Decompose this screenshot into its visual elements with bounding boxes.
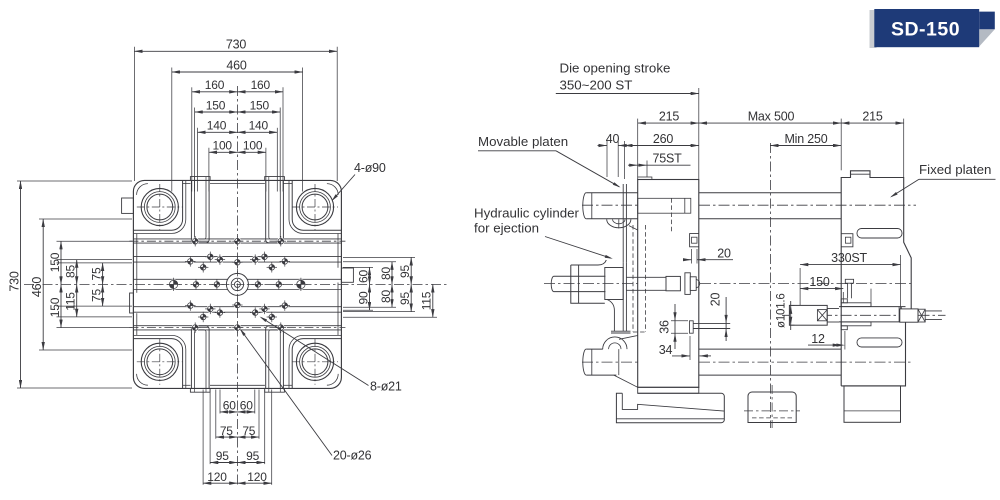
- mounting hole: [267, 262, 277, 272]
- mounting hole: [259, 304, 269, 314]
- tie-bar lobe boundary: [133, 180, 182, 230]
- main lower rod: [839, 306, 906, 308]
- svg-text:75: 75: [242, 424, 255, 438]
- dim 20 rod dia: [725, 297, 727, 341]
- inner edge line bottom: [183, 384, 191, 386]
- dim 20 hook: [691, 249, 693, 264]
- lower assembly at fixed platen: [845, 279, 853, 283]
- movable platen slide shoe: [616, 393, 724, 422]
- svg-text:350~200 ST: 350~200 ST: [560, 78, 633, 93]
- movable platen top step: [638, 177, 652, 180]
- dim 80 lower right: [391, 284, 393, 307]
- rod end bearing square: [918, 309, 925, 322]
- row centerline +150: [129, 240, 345, 242]
- die space center support: [748, 392, 796, 423]
- upper tie bar: [586, 192, 638, 194]
- dim 100/100: [209, 151, 238, 153]
- dim 95/95 bottom: [210, 462, 237, 464]
- svg-text:150: 150: [206, 98, 226, 112]
- hidden ejector bore: [632, 225, 634, 332]
- dim 330ST: [900, 255, 902, 309]
- SD-150 badge: [870, 9, 995, 48]
- svg-text:20-ø26: 20-ø26: [333, 449, 372, 463]
- dim 150 upper left: [60, 241, 62, 284]
- svg-text:100: 100: [243, 139, 263, 153]
- mounting hole: [191, 279, 201, 289]
- center locating hole: [226, 273, 248, 295]
- inner edge line left: [136, 234, 138, 293]
- svg-text:460: 460: [30, 277, 44, 298]
- mounting hole: [274, 279, 284, 289]
- mounting hole: [232, 300, 242, 310]
- dim 36: [671, 320, 688, 322]
- dim 460 top: [172, 71, 303, 73]
- mounting hole: [250, 307, 260, 317]
- svg-text:120: 120: [207, 470, 227, 484]
- dim 460 left: [42, 219, 44, 350]
- dim 60/60 bottom: [220, 411, 237, 413]
- dim 85: [76, 260, 78, 285]
- mounting hole: [232, 322, 242, 332]
- fixed platen T-slot upper: [857, 229, 902, 239]
- mounting hole: [276, 236, 286, 246]
- lower rod: cylinder block: [789, 305, 827, 325]
- svg-text:160: 160: [251, 78, 271, 92]
- mounting hole: [215, 254, 225, 264]
- dim 730 top: [134, 50, 337, 52]
- svg-text:12: 12: [811, 332, 825, 346]
- center crosshair over circle: [221, 283, 253, 285]
- svg-text:40: 40: [606, 132, 620, 146]
- svg-text:150: 150: [809, 275, 830, 289]
- groove band lower mid: [133, 306, 341, 308]
- ejector push rod: [626, 276, 666, 278]
- dim o101.6: [789, 304, 794, 306]
- row centerline -150: [129, 327, 345, 329]
- svg-text:95: 95: [246, 449, 259, 463]
- svg-text:140: 140: [249, 119, 269, 133]
- mounting hole: [259, 252, 269, 262]
- cylinder head block: [605, 268, 623, 300]
- tie bar hole 4-o90: [137, 339, 183, 385]
- centerline horizontal: [24, 283, 447, 285]
- svg-text:75: 75: [220, 424, 233, 438]
- mounting hole: [232, 236, 242, 246]
- dim 215 left: [637, 119, 639, 177]
- hidden tie bar bore line: [671, 198, 673, 232]
- dim Max 500: [840, 119, 842, 171]
- side hole right: [294, 278, 307, 291]
- lower tie bar: [586, 348, 603, 350]
- quick-clamp hook on movable platen face: [690, 234, 699, 247]
- movable platen body: [638, 180, 699, 388]
- svg-text:215: 215: [862, 110, 883, 124]
- svg-text:60: 60: [240, 399, 253, 413]
- mounting hole: [212, 279, 222, 289]
- quick-clamp hook on fixed platen face: [841, 234, 853, 247]
- svg-text:150: 150: [48, 252, 62, 272]
- svg-text:100: 100: [212, 139, 232, 153]
- lower rod segment: [827, 308, 839, 310]
- dim 150/150: [195, 111, 238, 113]
- left edge tab upper: [122, 198, 134, 213]
- svg-text:115: 115: [64, 292, 78, 311]
- svg-text:460: 460: [226, 58, 247, 72]
- groove band +150: [133, 238, 341, 240]
- svg-text:95: 95: [216, 449, 229, 463]
- dim 120/120 bottom: [203, 482, 237, 484]
- svg-text:75: 75: [90, 289, 104, 302]
- svg-text:Max 500: Max 500: [748, 110, 795, 124]
- lower assembly centerline: [782, 314, 946, 316]
- T-slot opening with tab: [265, 177, 285, 181]
- dim 75/75 bottom: [216, 436, 238, 438]
- mounting hole: [205, 252, 215, 262]
- mounting hole: [280, 256, 290, 266]
- mounting hole: [190, 236, 200, 246]
- svg-text:95: 95: [398, 292, 412, 305]
- mounting hole: [232, 257, 242, 267]
- mounting hole: [267, 312, 277, 322]
- platen outline: [133, 180, 341, 388]
- dim 95 lower right: [410, 284, 412, 311]
- dim 40: [606, 141, 608, 177]
- svg-text:Movable platen: Movable platen: [478, 134, 568, 149]
- fixed platen T-slot lower: [857, 338, 902, 347]
- svg-text:115: 115: [420, 291, 434, 310]
- dim 75 upper: [102, 263, 104, 285]
- svg-text:Min 250: Min 250: [784, 132, 827, 146]
- svg-text:260: 260: [653, 132, 674, 146]
- mounting hole: [205, 304, 215, 314]
- svg-text:ø101.6: ø101.6: [776, 293, 788, 328]
- left dim extension lines: [57, 240, 133, 242]
- mounting hole: [280, 300, 290, 310]
- svg-text:150: 150: [250, 98, 270, 112]
- mounting hole: [276, 322, 286, 332]
- fixed platen pedestal: [844, 386, 901, 422]
- dim 34: [689, 336, 691, 360]
- groove band -150: [133, 325, 341, 327]
- die opening stroke dim line: [556, 93, 699, 95]
- side hole left: [167, 278, 180, 291]
- fixed platen body: [841, 171, 911, 386]
- left edge tab lower: [130, 293, 134, 313]
- lower tie bar saddle: [603, 337, 627, 349]
- knock-out head: [685, 273, 690, 295]
- dim 730 left: [20, 181, 22, 388]
- svg-text:for ejection: for ejection: [474, 221, 539, 236]
- left view: platen front: [7, 38, 447, 486]
- svg-text:330ST: 330ST: [831, 251, 867, 265]
- mounting hole: [253, 279, 263, 289]
- mounting hole: [185, 300, 195, 310]
- tie bar to platen diagonal: [614, 375, 638, 387]
- dim 150 lower: [799, 268, 801, 305]
- rod coupling: [666, 276, 680, 290]
- dim 115 right: [432, 284, 434, 317]
- dim 140/140: [198, 131, 238, 133]
- svg-text:730: 730: [7, 271, 21, 292]
- dim 12: [844, 331, 846, 350]
- dim 215 right: [903, 119, 905, 177]
- T knock-out bracket: [690, 321, 694, 333]
- svg-text:85: 85: [64, 265, 78, 278]
- dim 60 right: [369, 267, 371, 284]
- upper tie bar saddle: [607, 219, 631, 228]
- svg-text:75ST: 75ST: [652, 152, 682, 166]
- mounting hole: [198, 312, 208, 322]
- svg-text:95: 95: [398, 265, 412, 278]
- tie bar hole 4-o90: [292, 184, 338, 230]
- tie bar hole 4-o90: [137, 184, 183, 230]
- dim 150 lower left: [60, 284, 62, 327]
- lower tie bar centerline: [582, 361, 912, 363]
- svg-text:140: 140: [207, 119, 227, 133]
- svg-text:Fixed platen: Fixed platen: [919, 162, 991, 177]
- extension line x871: [870, 289, 872, 307]
- dim 260: [624, 141, 626, 179]
- plate corner echo arcs: [137, 184, 148, 195]
- hydraulic ejection cylinder rod: [554, 275, 606, 277]
- svg-text:150: 150: [48, 297, 62, 317]
- inner edge line top: [183, 183, 191, 185]
- svg-text:20: 20: [717, 246, 731, 260]
- lower rod: bearing square: [817, 310, 827, 321]
- dim 80 upper right: [391, 262, 393, 285]
- dim 115 left: [76, 284, 78, 317]
- svg-text:120: 120: [247, 470, 267, 484]
- main axis centerline: [544, 283, 913, 285]
- tie bar bushing bore: [638, 198, 691, 213]
- cylinder support bracket: [607, 300, 614, 332]
- svg-text:160: 160: [205, 78, 225, 92]
- tie-bar lobe boundary: [133, 339, 182, 389]
- svg-text:36: 36: [657, 320, 671, 334]
- T-slot opening with tab: [190, 388, 210, 392]
- svg-text:60: 60: [223, 399, 236, 413]
- tie bar hole 4-o90: [292, 339, 338, 385]
- rod end block: [900, 309, 918, 322]
- groove band upper mid: [133, 256, 341, 258]
- svg-text:90: 90: [356, 291, 370, 304]
- mounting hole: [250, 254, 260, 264]
- top dimension extension lines: [133, 47, 135, 181]
- centerline vertical: [236, 86, 238, 486]
- svg-text:60: 60: [356, 270, 370, 283]
- svg-text:730: 730: [226, 38, 247, 52]
- groove band center: [133, 278, 341, 280]
- svg-text:Die opening stroke: Die opening stroke: [560, 61, 671, 76]
- min daylight position line: [769, 143, 771, 428]
- rod tail: [925, 310, 942, 312]
- mounting hole: [185, 256, 195, 266]
- tie-bar lobe boundary: [292, 180, 341, 230]
- svg-text:Hydraulic cylinder: Hydraulic cylinder: [474, 206, 580, 221]
- cylinder flange: [571, 260, 607, 303]
- svg-text:80: 80: [379, 290, 393, 303]
- T-slot opening with tab: [190, 177, 210, 181]
- svg-text:SD-150: SD-150: [891, 18, 960, 40]
- inner edge line right: [337, 234, 339, 268]
- right view: clamping unit side: [474, 61, 996, 429]
- svg-text:215: 215: [659, 110, 680, 124]
- dim 160/160: [192, 91, 238, 93]
- dim Min 250: [770, 145, 841, 147]
- platen bottom plate: [638, 387, 699, 393]
- dim 95 upper right: [410, 257, 412, 284]
- bottom dim extension lines: [219, 390, 221, 414]
- tie-bar lobe boundary: [292, 339, 341, 389]
- right edge tab: [341, 268, 353, 282]
- mounting hole: [215, 307, 225, 317]
- mounting hole: [190, 322, 200, 332]
- ejector housing plates: [622, 184, 624, 263]
- svg-text:8-ø21: 8-ø21: [370, 380, 402, 394]
- dim 75ST: [646, 161, 648, 178]
- dim 75 lower: [102, 284, 104, 306]
- dim 90 right: [369, 284, 371, 310]
- svg-text:34: 34: [659, 343, 673, 357]
- svg-text:4-ø90: 4-ø90: [354, 161, 386, 175]
- T-slot opening with tab: [265, 388, 285, 392]
- upper tie bar centerline: [582, 204, 916, 206]
- mounting hole: [198, 262, 208, 272]
- svg-text:75: 75: [90, 267, 104, 280]
- right dim extension lines: [343, 266, 373, 268]
- svg-text:80: 80: [379, 267, 393, 280]
- svg-text:20: 20: [709, 293, 723, 307]
